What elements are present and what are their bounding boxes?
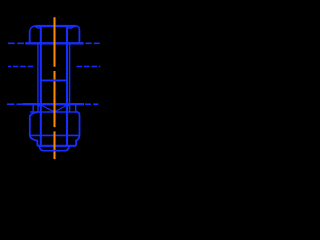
bolt head top line <box>35 25 76 27</box>
nut mid line <box>30 134 79 136</box>
nut outline right <box>76 112 79 146</box>
head top-left corner <box>30 26 36 32</box>
head chamfer arc right <box>67 26 74 28</box>
head base line dashed left <box>8 42 24 44</box>
head right side <box>78 29 80 43</box>
head base line dashed right <box>85 42 99 44</box>
head top-right corner <box>76 26 79 29</box>
head base line solid <box>25 42 83 44</box>
nut upper face line <box>30 111 78 113</box>
nut top line solid <box>22 103 84 105</box>
head chamfer arc left <box>35 26 41 28</box>
hidden line mid right <box>77 66 101 68</box>
CAD drawing of hex bolt with nut, front view, blue lines on black <box>0 0 110 167</box>
centerline (orange, long dashes) <box>54 17 56 159</box>
thread runout line <box>41 79 67 81</box>
thread outer line right <box>69 43 71 112</box>
background <box>0 0 110 167</box>
nut chamfer arc right <box>67 105 70 108</box>
head left side <box>29 31 31 43</box>
nut outline left <box>30 112 38 146</box>
hidden line mid left <box>8 66 33 68</box>
thread outer line left <box>37 43 39 112</box>
nut corner edge left <box>32 105 34 112</box>
nut top line dashed left <box>7 103 22 105</box>
thread inner line right <box>66 27 68 146</box>
nut chamfer arc left <box>38 105 41 108</box>
nut corner edge right <box>75 105 77 112</box>
bolt tip <box>39 146 69 151</box>
nut top line dashed right <box>85 103 98 105</box>
nut chamfer arc middle <box>41 105 67 111</box>
nut bottom line <box>37 145 76 147</box>
thread inner line left (head top to nut bottom) <box>40 27 42 146</box>
